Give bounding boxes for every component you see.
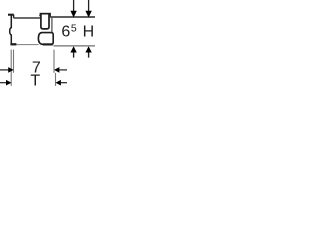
svg-text:6: 6 [61,23,70,40]
svg-text:T: T [30,73,40,90]
svg-text:H: H [83,24,95,41]
svg-text:5: 5 [71,23,77,35]
